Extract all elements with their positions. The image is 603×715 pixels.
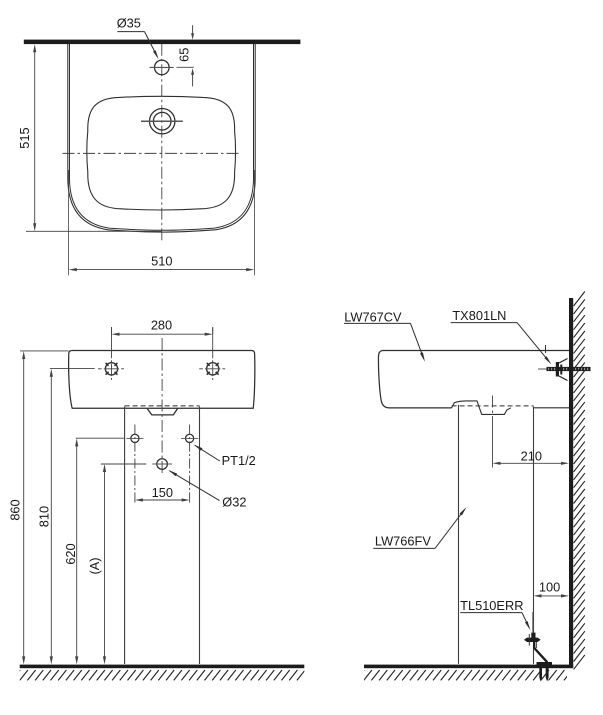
wall supply fitting TX801LN bbox=[538, 345, 591, 381]
svg-text:150: 150 bbox=[152, 485, 173, 500]
dimension 150 bbox=[135, 485, 190, 502]
svg-text:65: 65 bbox=[176, 48, 191, 62]
right PT1/2 hole (front) bbox=[181, 425, 198, 505]
basin inner rim line (plan) bbox=[70, 44, 254, 231]
dimension 65 bbox=[176, 25, 194, 86]
left mounting hole (front) bbox=[98, 327, 124, 380]
dimension (A) bbox=[87, 464, 146, 664]
dimension 100 bbox=[534, 580, 570, 598]
pedestal hidden top edge (side) bbox=[452, 405, 534, 407]
floor hatching (side view) bbox=[356, 670, 572, 680]
dimension 210 bbox=[493, 449, 570, 465]
drain hole Ø32 (front) bbox=[152, 459, 172, 470]
pedestal hidden top edge (front) bbox=[125, 405, 200, 407]
svg-text:(A): (A) bbox=[87, 557, 102, 574]
svg-text:PT1/2: PT1/2 bbox=[222, 453, 256, 468]
svg-text:100: 100 bbox=[539, 580, 560, 595]
label Ø32 bbox=[168, 470, 246, 510]
horizontal centerline (plan) bbox=[63, 152, 240, 154]
dimension 280 bbox=[112, 318, 213, 336]
faucet hole circle (plan) bbox=[150, 60, 174, 75]
label PT1/2 bbox=[194, 445, 256, 468]
drain centerline (side) bbox=[492, 396, 494, 468]
stop valve / trap TL510ERR bbox=[524, 612, 552, 682]
svg-text:620: 620 bbox=[63, 543, 78, 564]
vertical centerline (front view) bbox=[161, 338, 163, 475]
label LW767CV bbox=[344, 309, 425, 362]
svg-text:510: 510 bbox=[151, 254, 172, 269]
pedestal right side (side) bbox=[533, 407, 535, 664]
svg-text:280: 280 bbox=[151, 318, 172, 333]
overflow notch (front) bbox=[147, 408, 178, 415]
pedestal left side (front) bbox=[124, 407, 126, 665]
label TL510ERR bbox=[460, 598, 530, 631]
inner bowl outline (plan) bbox=[87, 96, 236, 210]
wall section line (side view) bbox=[569, 298, 573, 668]
basin outer outline (plan) bbox=[68, 44, 255, 232]
pedestal left side (side) bbox=[458, 405, 460, 664]
svg-text:210: 210 bbox=[521, 449, 542, 464]
label LW766FV bbox=[373, 507, 466, 549]
dimension 860 bbox=[8, 351, 69, 665]
basin outline (front view) bbox=[69, 351, 255, 409]
dimension 510 bbox=[69, 170, 255, 275]
svg-text:Ø35: Ø35 bbox=[117, 16, 141, 31]
svg-text:TL510ERR: TL510ERR bbox=[460, 598, 523, 613]
label leader Ø35 bbox=[117, 16, 159, 60]
svg-text:515: 515 bbox=[17, 127, 32, 148]
svg-text:LW767CV: LW767CV bbox=[344, 309, 402, 324]
drain trap profile (side view) bbox=[452, 401, 511, 415]
wall section line (plan view) bbox=[24, 40, 301, 45]
pedestal right side (front) bbox=[199, 407, 201, 665]
svg-text:LW766FV: LW766FV bbox=[375, 534, 431, 549]
label TX801LN bbox=[451, 308, 552, 365]
svg-text:Ø32: Ø32 bbox=[222, 495, 246, 510]
dimension 515 bbox=[17, 44, 162, 231]
dimension 810 bbox=[36, 369, 94, 665]
floor hatching (front view) bbox=[12, 670, 305, 680]
floor section line (front view) bbox=[20, 665, 305, 669]
left PT1/2 hole (front) bbox=[126, 425, 143, 505]
floor section line (side view) bbox=[364, 665, 573, 669]
svg-text:TX801LN: TX801LN bbox=[452, 308, 506, 323]
svg-text:810: 810 bbox=[36, 506, 51, 527]
svg-text:860: 860 bbox=[8, 499, 23, 520]
right mounting hole (front) bbox=[199, 327, 225, 380]
dimension 620 bbox=[63, 438, 125, 664]
basin outline (side view) bbox=[378, 351, 569, 408]
drain circles (plan) bbox=[141, 109, 183, 134]
wall hatching bbox=[574, 292, 585, 670]
vertical centerline (plan) bbox=[161, 44, 163, 243]
